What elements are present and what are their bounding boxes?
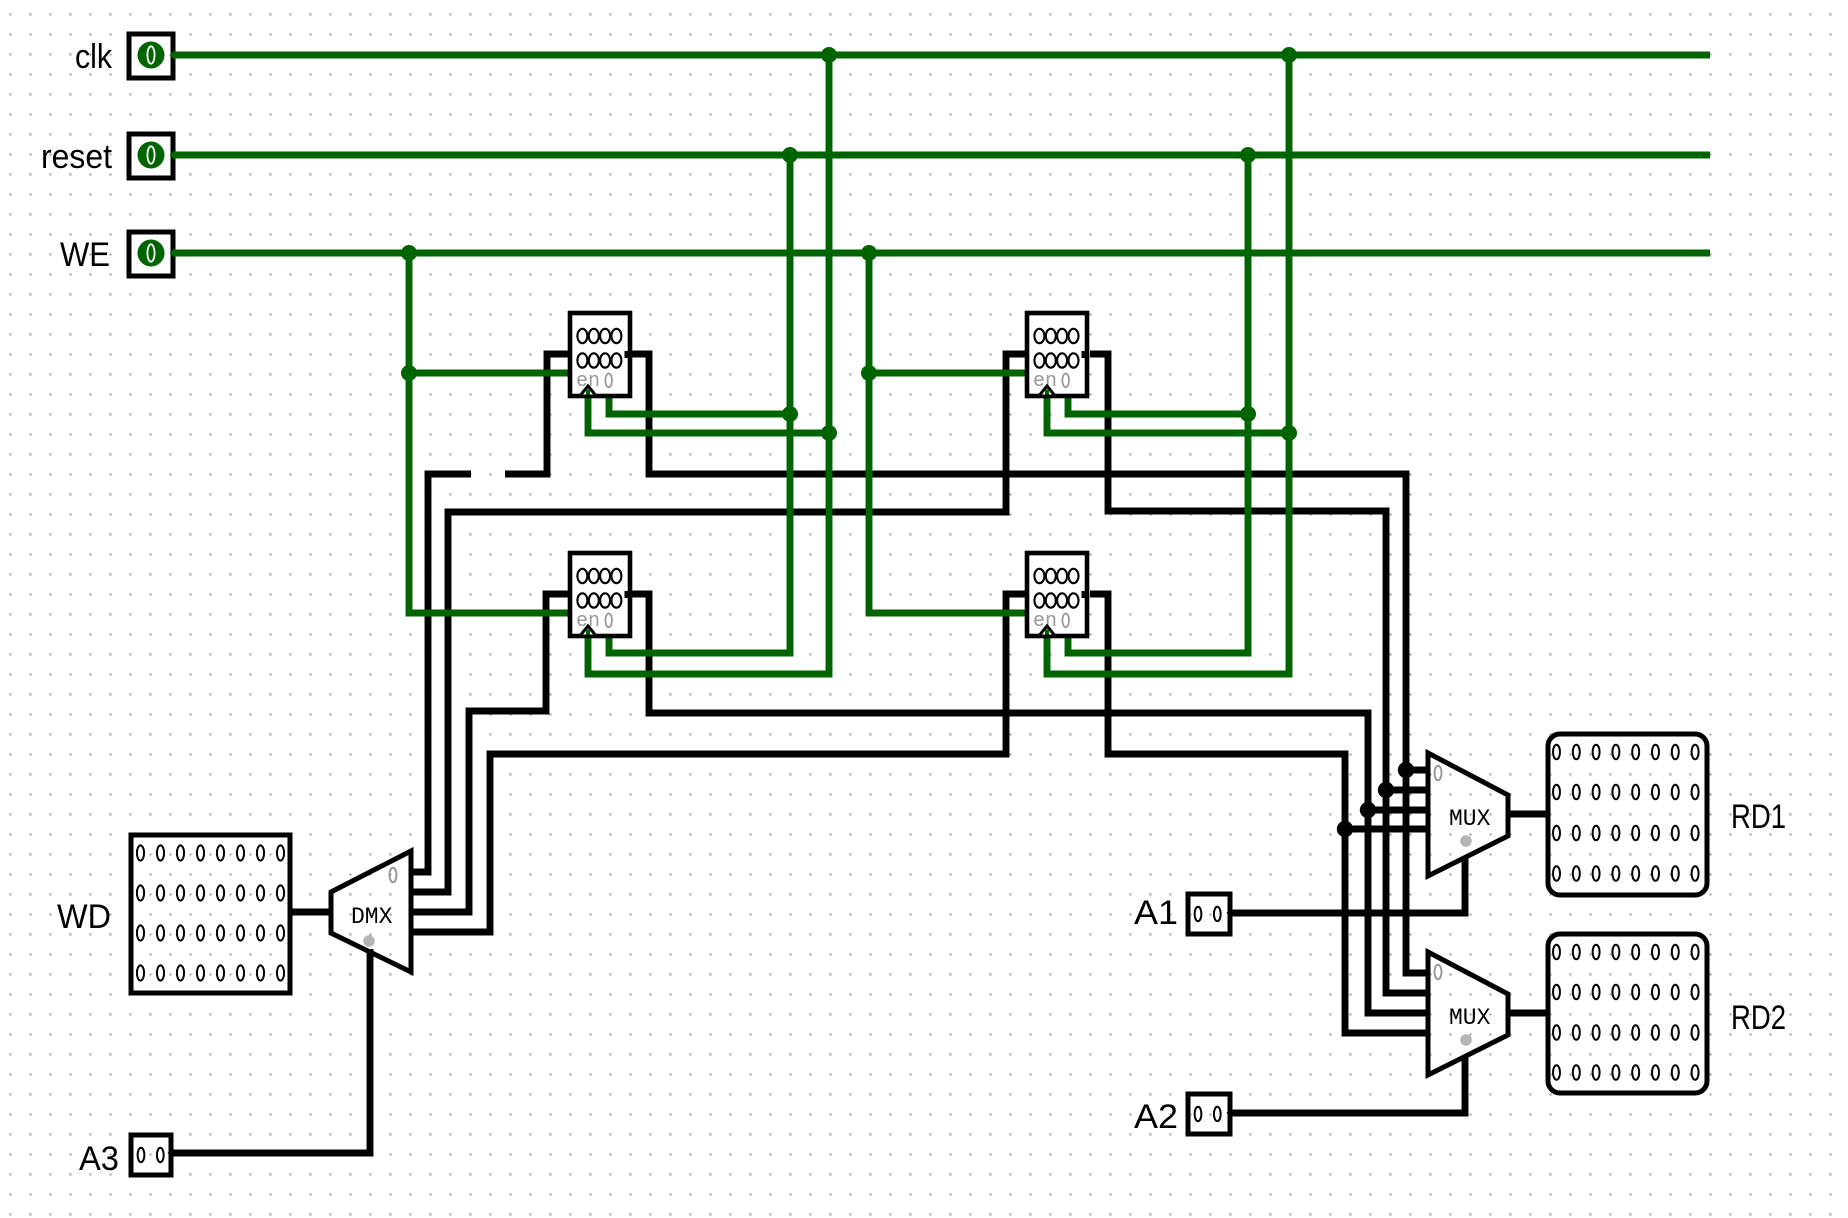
svg-text:A1: A1: [1134, 894, 1178, 932]
svg-text:WE: WE: [60, 236, 110, 274]
svg-text:A2: A2: [1134, 1098, 1178, 1136]
svg-text:DMX: DMX: [351, 904, 393, 930]
svg-text:clk: clk: [75, 38, 113, 76]
svg-text:MUX: MUX: [1449, 1005, 1491, 1031]
svg-text:RD2: RD2: [1731, 999, 1786, 1037]
svg-text:MUX: MUX: [1449, 806, 1491, 832]
svg-text:WD: WD: [57, 898, 111, 936]
svg-text:RD1: RD1: [1731, 798, 1786, 836]
svg-text:A3: A3: [79, 1140, 119, 1178]
svg-text:reset: reset: [41, 138, 113, 176]
